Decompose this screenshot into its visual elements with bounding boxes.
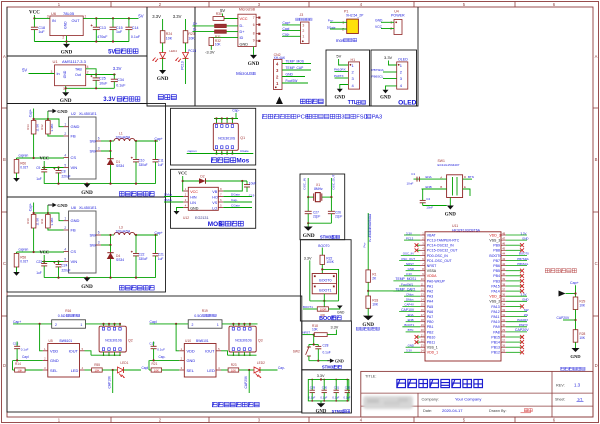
svg-text:C19: C19 bbox=[249, 194, 255, 198]
driver U12 EG2131 bbox=[188, 187, 218, 210]
svg-text:PA5: PA5 bbox=[427, 305, 433, 309]
svg-text:40: 40 bbox=[502, 272, 505, 276]
svg-text:D: D bbox=[595, 363, 598, 368]
svg-text:PB3: PB3 bbox=[493, 279, 500, 283]
ground GND 5V section bbox=[63, 44, 70, 48]
svg-text:Q1: Q1 bbox=[240, 136, 245, 140]
svg-text:PB6: PB6 bbox=[493, 264, 500, 268]
transistor Q2 NCE3010S bbox=[99, 326, 126, 352]
svg-text:PA2: PA2 bbox=[427, 290, 433, 294]
svg-text:VDD_1: VDD_1 bbox=[427, 351, 438, 355]
label charge voltage detect bbox=[561, 367, 564, 370]
wire net CAP20V to MCU pin 29 bbox=[506, 331, 527, 333]
svg-text:CAP20V: CAP20V bbox=[557, 316, 570, 320]
svg-text:2: 2 bbox=[390, 27, 392, 31]
svg-text:C: C bbox=[3, 261, 6, 266]
svg-text:2W: 2W bbox=[524, 313, 529, 317]
svg-text:OLED: OLED bbox=[398, 100, 417, 107]
svg-text:GND: GND bbox=[408, 344, 414, 348]
wire J3 Cap- pin bbox=[282, 35, 301, 37]
svg-text:R55: R55 bbox=[94, 363, 100, 367]
wire VCC to rail bbox=[33, 15, 35, 18]
svg-text:OUT: OUT bbox=[72, 19, 81, 23]
svg-text:NCE3010S: NCE3010S bbox=[235, 339, 252, 343]
wire IOUT to Q3 gate bbox=[221, 351, 228, 355]
wire encoder A bbox=[414, 178, 447, 180]
wire net CAP10V to MCU pin 16 bbox=[399, 311, 420, 313]
svg-text:8: 8 bbox=[253, 31, 255, 35]
svg-text:CapI: CapI bbox=[150, 320, 157, 324]
wire net PB7SDA to MCU pin 43 bbox=[506, 260, 527, 262]
svg-text:5V: 5V bbox=[138, 14, 143, 19]
svg-text:3.3V: 3.3V bbox=[406, 272, 412, 276]
svg-text:GND: GND bbox=[522, 236, 528, 240]
svg-text:XL4501E1: XL4501E1 bbox=[79, 112, 97, 116]
wire net PC13 to MCU pin 2 bbox=[404, 239, 420, 241]
svg-text:GND: GND bbox=[57, 109, 68, 114]
wire GND pin to flag bbox=[48, 213, 64, 221]
svg-text:C11: C11 bbox=[158, 158, 164, 162]
wire output ground rail bbox=[44, 183, 155, 185]
svg-text:2: 2 bbox=[192, 323, 194, 327]
svg-text:In: In bbox=[57, 72, 60, 76]
no-connect X on MCU pin 3 bbox=[416, 244, 420, 246]
capacitor C28 0.1uF bbox=[317, 345, 319, 347]
svg-text:CAP20V: CAP20V bbox=[515, 328, 529, 332]
net CAP10V sense wire bbox=[112, 370, 114, 393]
wire SW node bbox=[101, 140, 114, 142]
svg-text:41: 41 bbox=[502, 267, 505, 271]
ground GND crystal bbox=[304, 227, 313, 231]
svg-text:ID: ID bbox=[240, 36, 244, 40]
ground GND indicator bbox=[159, 70, 166, 74]
svg-text:Your Company: Your Company bbox=[455, 397, 481, 402]
svg-text:ENA: ENA bbox=[408, 313, 414, 317]
svg-text:3.3V: 3.3V bbox=[304, 256, 312, 260]
ground under sense resistor bbox=[16, 267, 18, 272]
capacitor C23 1uF bbox=[43, 262, 45, 264]
no-connect X on MCU pin 25 bbox=[506, 351, 521, 353]
svg-text:47: 47 bbox=[502, 236, 505, 240]
resistor R22 100K bbox=[320, 255, 325, 264]
svg-text:PD0-OSC_IN: PD0-OSC_IN bbox=[427, 254, 448, 258]
wire net DMos to MCU pin 14 bbox=[404, 300, 420, 302]
no-connect X on MCU pin 41 bbox=[506, 270, 521, 272]
svg-text:Date:: Date: bbox=[423, 409, 432, 413]
wire Pv+ sense bbox=[367, 213, 369, 270]
svg-text:11.5K: 11.5K bbox=[36, 124, 40, 132]
ground GND buck bbox=[84, 278, 91, 282]
svg-text:1: 1 bbox=[64, 123, 66, 127]
svg-text:6: 6 bbox=[98, 231, 100, 235]
svg-text:D+: D+ bbox=[240, 30, 246, 34]
svg-text:VSS_3: VSS_3 bbox=[489, 239, 500, 243]
svg-text:HO: HO bbox=[212, 195, 218, 199]
svg-text:GND: GND bbox=[522, 298, 528, 302]
svg-text:C14: C14 bbox=[132, 26, 139, 30]
wire to switch and cap bbox=[313, 335, 315, 345]
svg-text:5: 5 bbox=[64, 163, 66, 167]
svg-text:35: 35 bbox=[502, 298, 505, 302]
ground boot bbox=[328, 306, 339, 310]
wire net CAP4V to MCU pin 15 bbox=[402, 305, 420, 307]
svg-text:AMS1117-3.3: AMS1117-3.3 bbox=[62, 59, 87, 64]
svg-text:43: 43 bbox=[502, 257, 505, 261]
svg-text:POWER: POWER bbox=[391, 13, 405, 17]
label four wire resistance detect bbox=[356, 327, 359, 330]
capacitor C8 220uF bbox=[58, 168, 60, 171]
svg-text:Cap-: Cap- bbox=[231, 198, 238, 202]
svg-text:Q2: Q2 bbox=[128, 339, 133, 343]
capacitor C30 0.1uF bbox=[323, 379, 325, 381]
svg-text:Mos: Mos bbox=[236, 158, 249, 165]
wire net PB6SCL to MCU pin 42 bbox=[506, 265, 527, 267]
svg-text:ENB: ENB bbox=[426, 185, 432, 189]
svg-text:CMos: CMos bbox=[164, 198, 173, 202]
wire to R24 bbox=[162, 19, 164, 31]
wire CN2 TEMP_CAP bbox=[282, 69, 311, 71]
svg-text:48: 48 bbox=[502, 231, 505, 235]
svg-text:PB12: PB12 bbox=[491, 351, 500, 355]
svg-text:39: 39 bbox=[502, 277, 505, 281]
svg-text:15: 15 bbox=[421, 303, 424, 307]
svg-text:10K: 10K bbox=[154, 368, 159, 372]
wire CN2 TEMP_MOS bbox=[282, 63, 311, 65]
net flag arrow up bbox=[276, 97, 283, 105]
svg-text:11.5K: 11.5K bbox=[36, 218, 40, 226]
svg-text:EC11G1534407: EC11G1534407 bbox=[438, 163, 460, 167]
svg-text:TEMP_MOS: TEMP_MOS bbox=[286, 60, 305, 64]
svg-text:PA4: PA4 bbox=[427, 300, 433, 304]
svg-text:3.3V: 3.3V bbox=[331, 326, 339, 330]
svg-text:VDD: VDD bbox=[50, 349, 58, 354]
wire Q1 source bus bbox=[216, 150, 218, 153]
svg-text:SS34: SS34 bbox=[116, 164, 124, 168]
svg-text:45: 45 bbox=[502, 247, 505, 251]
no-connect X on MCU pin 34 bbox=[506, 305, 521, 307]
svg-text:C28: C28 bbox=[323, 343, 329, 347]
wire net OSC_OUT to MCU pin 6 bbox=[399, 260, 420, 262]
svg-text:Sheet:: Sheet: bbox=[555, 398, 565, 402]
svg-text:27: 27 bbox=[502, 338, 505, 342]
svg-text:BTN: BTN bbox=[468, 175, 474, 179]
svg-text:U12: U12 bbox=[183, 216, 189, 220]
svg-text:3.3V: 3.3V bbox=[317, 374, 325, 378]
svg-text:GND: GND bbox=[248, 61, 260, 67]
inductor L3 100uH/5A bbox=[114, 232, 135, 235]
ground under sense resistor bbox=[16, 173, 18, 178]
svg-text:2: 2 bbox=[64, 132, 66, 136]
svg-text:LED: LED bbox=[207, 368, 215, 373]
svg-text:3.3V: 3.3V bbox=[152, 14, 161, 19]
svg-text:4: 4 bbox=[64, 153, 66, 157]
svg-text:PC13: PC13 bbox=[188, 49, 196, 53]
resistor R8 100R bbox=[317, 307, 328, 311]
svg-text:PA10RX: PA10RX bbox=[334, 68, 346, 72]
section box TTL serial bbox=[326, 50, 370, 106]
resistor R1 2K bbox=[366, 270, 371, 282]
section box buck #2 bbox=[7, 104, 166, 198]
svg-text:1: 1 bbox=[217, 323, 219, 327]
svg-text:PB1: PB1 bbox=[427, 325, 434, 329]
svg-text:VCC: VCC bbox=[39, 156, 49, 161]
svg-text:C30: C30 bbox=[322, 386, 328, 390]
net label Cap+ feedback bbox=[34, 109, 48, 120]
svg-text:LO: LO bbox=[212, 206, 217, 210]
svg-text:VIN: VIN bbox=[71, 259, 78, 264]
svg-text:Cap+: Cap+ bbox=[13, 320, 21, 324]
svg-text:1: 1 bbox=[64, 217, 66, 221]
svg-text:PC13: PC13 bbox=[181, 61, 185, 70]
wire encoder E bbox=[463, 189, 470, 196]
wire LED4 to ground bbox=[162, 58, 164, 70]
svg-text:0.1uF: 0.1uF bbox=[332, 395, 339, 399]
net flag GND U8 bbox=[47, 205, 49, 213]
svg-text:PA6: PA6 bbox=[427, 310, 433, 314]
svg-text:470uF: 470uF bbox=[97, 35, 108, 39]
svg-text:GND: GND bbox=[81, 284, 93, 290]
resistor R29 10K bbox=[573, 297, 578, 310]
diode D4 SS34 bbox=[110, 245, 112, 253]
wire net ENB to MCU pin 18 bbox=[406, 321, 420, 323]
resistor R66 0.027 bbox=[16, 158, 18, 160]
svg-text:VDD_2: VDD_2 bbox=[489, 295, 500, 299]
svg-text:C9: C9 bbox=[36, 166, 40, 170]
svg-text:29: 29 bbox=[502, 328, 505, 332]
resistor R13 11.5K bbox=[31, 121, 36, 135]
svg-text:B: B bbox=[595, 157, 598, 162]
svg-text:U2: U2 bbox=[71, 112, 76, 116]
svg-text:78L05: 78L05 bbox=[63, 11, 75, 16]
svg-text:VBAT: VBAT bbox=[427, 233, 437, 237]
svg-text:5V: 5V bbox=[108, 49, 115, 55]
svg-text:GND: GND bbox=[71, 124, 80, 129]
svg-text:2: 2 bbox=[64, 226, 66, 230]
svg-text:0.5Ω: 0.5Ω bbox=[58, 314, 66, 318]
wire net TEMP_MOS1 to MCU pin 10 bbox=[393, 280, 420, 282]
wire U4 VCC pin bbox=[381, 28, 394, 30]
svg-text:U8: U8 bbox=[71, 206, 76, 210]
net flag GND reset bbox=[327, 360, 330, 362]
svg-text:Cap+: Cap+ bbox=[28, 203, 32, 211]
svg-text:8MHz: 8MHz bbox=[314, 187, 323, 191]
svg-text:CAP10V: CAP10V bbox=[401, 308, 415, 312]
svg-text:BW6101: BW6101 bbox=[196, 339, 209, 343]
wire VS to Cap- bbox=[223, 201, 252, 203]
svg-text:12: 12 bbox=[421, 287, 424, 291]
wire H1 pin4 ground bbox=[340, 85, 349, 89]
label charge control MOS bbox=[211, 158, 216, 163]
svg-text:FootSW1: FootSW1 bbox=[401, 282, 413, 286]
svg-text:Pv+: Pv+ bbox=[368, 237, 372, 242]
wire boot loop bbox=[321, 264, 323, 273]
no-connect X on MCU pin 28 bbox=[506, 336, 521, 338]
svg-text:220uF: 220uF bbox=[62, 268, 71, 272]
svg-text:5V: 5V bbox=[336, 54, 341, 59]
svg-text:PA13: PA13 bbox=[491, 305, 499, 309]
svg-text:10K: 10K bbox=[166, 36, 173, 40]
svg-text:100uH/5A: 100uH/5A bbox=[116, 136, 131, 140]
wire encoder B bbox=[422, 188, 447, 190]
USB shield pads bbox=[256, 17, 258, 19]
diode D2 bbox=[183, 180, 199, 182]
wire net 3.3V to MCU pin 48 bbox=[506, 234, 527, 236]
svg-text:capren: capren bbox=[19, 248, 29, 252]
capacitor C18 1uF bbox=[33, 18, 35, 27]
no-connect X on MCU pin 38 bbox=[506, 285, 521, 287]
svg-text:OSC_OUT: OSC_OUT bbox=[401, 257, 415, 261]
svg-text:C16: C16 bbox=[13, 341, 19, 345]
ground GND filter bbox=[320, 401, 322, 403]
svg-text:C29: C29 bbox=[310, 386, 316, 390]
svg-text:100uH/5A: 100uH/5A bbox=[116, 230, 131, 234]
svg-text:1: 1 bbox=[302, 35, 304, 39]
svg-text:GND: GND bbox=[303, 233, 315, 239]
svg-text:10nF: 10nF bbox=[426, 205, 433, 209]
svg-text:46: 46 bbox=[502, 242, 505, 246]
no-connect X on MCU pin 27 bbox=[506, 341, 521, 343]
svg-text:capren: capren bbox=[188, 149, 198, 153]
wire ground rail 5V section bbox=[34, 41, 128, 43]
svg-text:Cap-: Cap- bbox=[232, 109, 239, 113]
svg-text:R10: R10 bbox=[26, 218, 30, 224]
svg-text:VIN: VIN bbox=[71, 165, 78, 170]
ground driver bbox=[174, 211, 180, 215]
svg-text:0.1uF: 0.1uF bbox=[116, 84, 126, 88]
svg-text:0.1uF: 0.1uF bbox=[131, 35, 141, 39]
wire R24 to LED4 bbox=[162, 43, 164, 53]
capacitor C15 1uF bbox=[112, 18, 114, 27]
svg-text:C10: C10 bbox=[139, 158, 145, 162]
svg-text:1: 1 bbox=[63, 87, 65, 91]
svg-text:2: 2 bbox=[55, 323, 57, 327]
svg-text:3.3V: 3.3V bbox=[521, 293, 527, 297]
wire net BOOT0 to MCU pin 44 bbox=[506, 254, 527, 256]
title block frame bbox=[361, 371, 593, 417]
svg-text:7: 7 bbox=[253, 16, 255, 20]
wire net PA9TX to MCU pin 30 bbox=[506, 326, 527, 328]
section box STM32 reset bbox=[302, 321, 352, 370]
svg-text:PA8: PA8 bbox=[493, 330, 499, 334]
svg-text:PB15: PB15 bbox=[491, 335, 500, 339]
section box capacitor balance protection bbox=[7, 296, 302, 412]
svg-text:PB6SCL: PB6SCL bbox=[372, 75, 384, 79]
wire U4 GND pin bbox=[381, 21, 394, 23]
label buck section bbox=[119, 192, 124, 196]
svg-text:PB7SDA: PB7SDA bbox=[372, 68, 385, 72]
svg-text:TEMP_CAP1: TEMP_CAP1 bbox=[395, 287, 415, 291]
net CAP20V sense wire bbox=[248, 370, 250, 393]
svg-text:SW: SW bbox=[90, 139, 97, 144]
ground divider bbox=[367, 308, 369, 315]
section box OLED bbox=[371, 50, 417, 106]
svg-text:1uF: 1uF bbox=[116, 30, 123, 34]
wire PA10RX bbox=[335, 71, 349, 73]
section box buck #1 bbox=[7, 197, 166, 292]
svg-text:10K: 10K bbox=[579, 303, 586, 307]
wire CN2 GND bbox=[282, 76, 305, 78]
svg-text:GND: GND bbox=[316, 409, 327, 414]
net flag GND U2 bbox=[47, 111, 49, 119]
svg-text:TAB: TAB bbox=[75, 67, 82, 71]
svg-text:GND: GND bbox=[60, 98, 72, 104]
svg-text:BOOT1: BOOT1 bbox=[404, 323, 414, 327]
svg-text:CAP4V: CAP4V bbox=[404, 303, 414, 307]
svg-text:D: D bbox=[464, 175, 466, 179]
wire D- line bbox=[193, 25, 215, 27]
svg-text:PA10RX: PA10RX bbox=[517, 318, 528, 322]
svg-text:R23: R23 bbox=[231, 363, 237, 367]
svg-text:NCE3010S: NCE3010S bbox=[105, 339, 122, 343]
wire reset ground bbox=[309, 360, 328, 362]
net label BOOT1 boot box bbox=[303, 308, 317, 310]
svg-text:3: 3 bbox=[98, 147, 100, 151]
net label -3.3V bbox=[210, 46, 212, 50]
wire net NRST to MCU pin 7 bbox=[404, 265, 420, 267]
svg-text:GND: GND bbox=[57, 203, 68, 208]
section box 5V supply bbox=[7, 7, 147, 56]
svg-text:BOOT0: BOOT0 bbox=[519, 252, 529, 256]
svg-text:VCC: VCC bbox=[178, 171, 187, 176]
note need to modify resistance bbox=[545, 269, 549, 273]
svg-text:0.5Ω: 0.5Ω bbox=[194, 314, 202, 318]
svg-text:5V: 5V bbox=[22, 67, 27, 72]
svg-text:Company:: Company: bbox=[422, 398, 439, 402]
svg-text:C32: C32 bbox=[345, 386, 351, 390]
svg-text:10K: 10K bbox=[188, 36, 195, 40]
svg-text:33: 33 bbox=[502, 308, 505, 312]
svg-text:EG2131: EG2131 bbox=[195, 216, 209, 220]
svg-text:B: B bbox=[440, 185, 442, 189]
svg-text:PA9: PA9 bbox=[493, 325, 499, 329]
wire net GND to MCU pin 8 bbox=[406, 270, 420, 272]
svg-text:VSS_1: VSS_1 bbox=[427, 346, 438, 350]
svg-text:A: A bbox=[3, 54, 6, 59]
net OSC_OUT stub bbox=[330, 178, 332, 197]
wire net 3.3V to MCU pin 1 bbox=[404, 234, 420, 236]
svg-text:4: 4 bbox=[87, 65, 89, 69]
resistor R24 10K bbox=[160, 31, 165, 43]
svg-text:10K: 10K bbox=[372, 303, 379, 307]
jumper block BOOT0 BOOT1 bbox=[312, 274, 336, 294]
svg-text:0.1uF: 0.1uF bbox=[21, 348, 29, 352]
wire net 3.3V to MCU pin 36 bbox=[506, 295, 527, 297]
capacitor C24 220uF bbox=[58, 262, 60, 265]
svg-text:3.48K: 3.48K bbox=[50, 218, 54, 226]
wire 5V output rail bbox=[83, 17, 138, 19]
svg-text:10nF: 10nF bbox=[407, 181, 414, 185]
resistor R10 11.5K bbox=[31, 215, 36, 229]
svg-text:NRST: NRST bbox=[303, 331, 311, 335]
no-connect X on MCU pin 21 bbox=[416, 336, 420, 338]
svg-text:10K: 10K bbox=[312, 328, 319, 332]
wire net PA10RX to MCU pin 31 bbox=[506, 321, 527, 323]
section box MOS driver bbox=[171, 169, 256, 228]
svg-text:Q3: Q3 bbox=[258, 339, 263, 343]
wire 5V rail input bbox=[34, 17, 50, 19]
svg-text:NRST: NRST bbox=[406, 262, 414, 266]
wire P1 pin1 bbox=[330, 21, 347, 23]
svg-text:GND: GND bbox=[187, 358, 196, 363]
svg-text:19: 19 bbox=[421, 323, 424, 327]
svg-text:10K: 10K bbox=[231, 368, 236, 372]
wire 5V to H1 pin1 bbox=[339, 59, 349, 65]
svg-text:C21: C21 bbox=[158, 252, 164, 256]
svg-text:1/1: 1/1 bbox=[577, 397, 583, 402]
wire OLED pin4 ground bbox=[386, 86, 397, 90]
svg-text:SW: SW bbox=[524, 308, 529, 312]
section box external interface bbox=[195, 7, 418, 106]
